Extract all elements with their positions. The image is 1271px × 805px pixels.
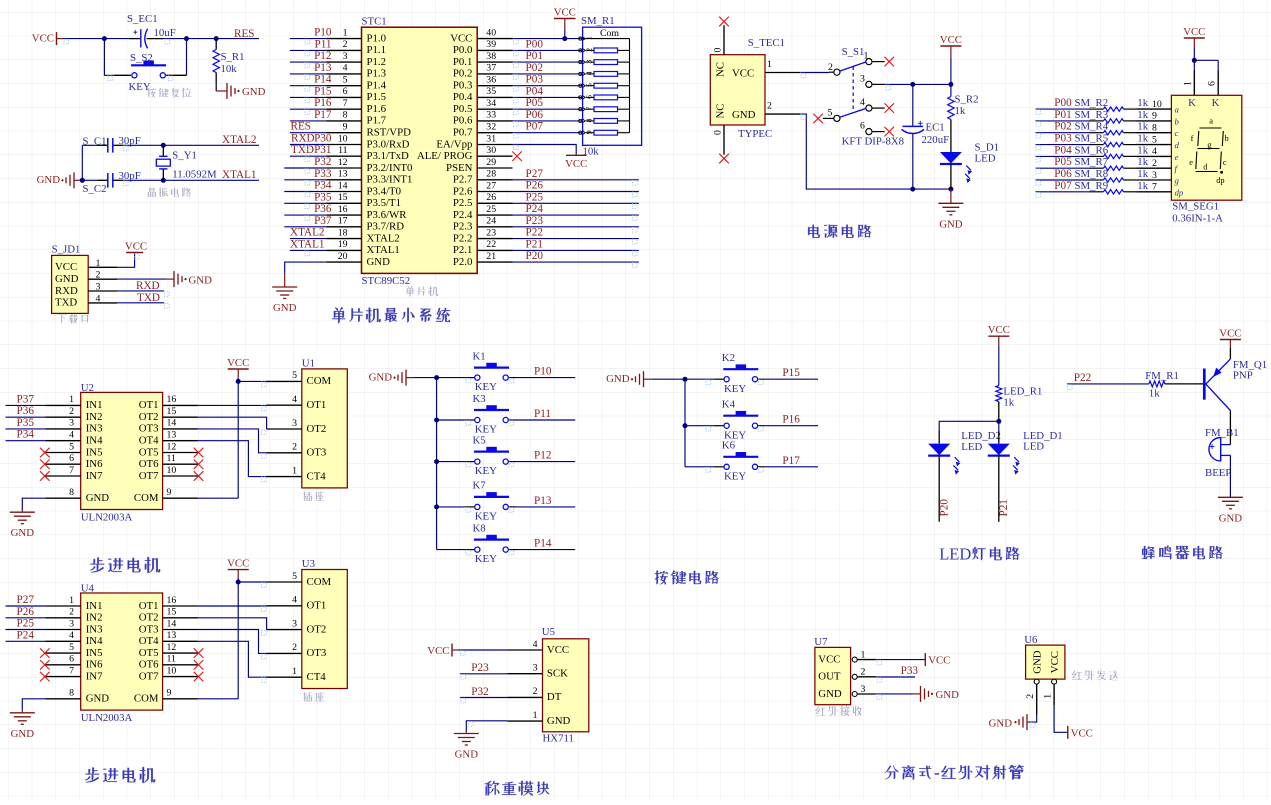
svg-text:35: 35 xyxy=(486,86,496,97)
buzzer FM_B1 BEEP xyxy=(1205,427,1239,479)
wire K5 to bus xyxy=(437,461,465,463)
node junction bus K3 xyxy=(434,418,439,423)
svg-text:SM_R4: SM_R4 xyxy=(1075,121,1109,133)
no connect X U4 IN5 xyxy=(40,648,50,658)
no connect X U4 IN7 xyxy=(40,672,50,682)
wire P24 xyxy=(6,640,46,642)
led LED_D1 xyxy=(988,430,1063,522)
wire keys left bus xyxy=(415,378,437,550)
svg-text:VCC: VCC xyxy=(227,558,249,570)
svg-text:COM: COM xyxy=(307,375,332,387)
svg-text:e: e xyxy=(1189,158,1193,167)
wire P01 xyxy=(513,61,583,63)
wire P26 xyxy=(6,617,46,619)
net label P23 xyxy=(471,662,489,674)
power port VCC (hx711) xyxy=(427,644,458,657)
svg-text:1k: 1k xyxy=(955,105,966,117)
svg-text:3: 3 xyxy=(533,663,538,674)
svg-text:39: 39 xyxy=(486,39,496,50)
svg-text:OT1: OT1 xyxy=(307,600,327,612)
svg-text:S_C2: S_C2 xyxy=(83,183,107,195)
wire P16 xyxy=(290,108,326,110)
svg-text:K6: K6 xyxy=(722,440,736,452)
svg-text:3: 3 xyxy=(292,418,297,429)
net label P04 xyxy=(526,85,544,97)
title 按键电路 xyxy=(655,571,719,585)
net label P07 (7seg) xyxy=(1054,180,1072,192)
svg-text:7: 7 xyxy=(343,98,348,109)
svg-text:OT4: OT4 xyxy=(139,435,159,447)
svg-text:9: 9 xyxy=(343,122,348,133)
wire EA to VCC xyxy=(513,145,577,156)
svg-text:8: 8 xyxy=(343,110,348,121)
svg-text:P27: P27 xyxy=(526,168,544,180)
svg-text:P3.6/WR: P3.6/WR xyxy=(367,209,408,221)
svg-text:LED: LED xyxy=(939,545,971,564)
net label P22 xyxy=(1074,372,1091,384)
svg-text:0.36IN-1-A: 0.36IN-1-A xyxy=(1172,213,1223,225)
svg-text:IN4: IN4 xyxy=(86,435,103,447)
wire TYPEC GND to bottom rail xyxy=(800,114,951,189)
svg-text:2: 2 xyxy=(69,406,74,417)
wire K3 to P11 xyxy=(516,419,576,421)
svg-text:22: 22 xyxy=(486,239,496,250)
svg-text:OT1: OT1 xyxy=(139,399,159,411)
led S_D1 xyxy=(940,142,999,189)
svg-text:3: 3 xyxy=(860,74,865,85)
connector S_TEC1 TYPEC xyxy=(710,25,800,154)
net label P12 xyxy=(534,450,551,462)
svg-text:P30: P30 xyxy=(314,133,332,145)
svg-text:TXD: TXD xyxy=(55,297,77,309)
wire P02 to segment resistor xyxy=(1035,132,1089,134)
wire K7 to P13 xyxy=(516,506,576,508)
svg-text:OT6: OT6 xyxy=(139,659,159,671)
net label P10 xyxy=(314,27,332,39)
svg-text:16: 16 xyxy=(167,595,177,606)
net label P25 xyxy=(526,191,544,203)
wire P01 to segment resistor xyxy=(1035,120,1089,122)
wire mcu VCC pin40 xyxy=(513,38,583,40)
no connect X TYPEC bottom xyxy=(719,154,729,164)
no connect X switch pin1 xyxy=(884,57,894,67)
title 步进电机 (upper) xyxy=(90,557,160,573)
svg-text:7: 7 xyxy=(69,665,74,676)
svg-text:COM: COM xyxy=(307,576,332,588)
mcu pin names and numbers xyxy=(338,27,496,268)
svg-text:OT2: OT2 xyxy=(307,623,327,635)
power port VCC (U7) xyxy=(925,653,950,667)
svg-text:K2: K2 xyxy=(722,352,735,364)
wire P06 to segment resistor xyxy=(1035,179,1089,181)
net label P13 xyxy=(534,495,552,507)
7seg pin 3 xyxy=(1136,170,1179,186)
svg-text:RES: RES xyxy=(234,28,255,40)
wire mcu GND xyxy=(285,262,327,273)
net label P02 xyxy=(526,62,543,74)
wire VCC to U1 COM xyxy=(238,380,266,382)
svg-text:40: 40 xyxy=(486,27,496,38)
wire P34 xyxy=(6,440,46,442)
svg-text:1k: 1k xyxy=(1137,156,1148,168)
compile marks xyxy=(64,39,1072,727)
svg-text:OT7: OT7 xyxy=(139,670,159,682)
wire hx711 VCC xyxy=(458,649,507,651)
title 单片机最小系统 xyxy=(332,307,450,323)
wire TXD P31 xyxy=(290,155,326,157)
svg-text:1: 1 xyxy=(343,27,348,38)
wire P07 xyxy=(513,132,583,134)
svg-text:P2.0: P2.0 xyxy=(453,256,473,268)
no connect X U4 OT6 xyxy=(194,660,204,670)
wire P37 xyxy=(284,226,326,228)
svg-text:2: 2 xyxy=(69,607,74,618)
wire P27 xyxy=(6,605,46,607)
svg-text:KEY: KEY xyxy=(475,553,497,565)
wire K1 to bus xyxy=(437,377,465,379)
svg-text:SM_R2: SM_R2 xyxy=(1075,97,1109,109)
svg-text:XTAL1: XTAL1 xyxy=(367,244,400,256)
no connect X U2 IN7 xyxy=(40,471,50,481)
svg-text:12: 12 xyxy=(167,441,177,452)
svg-text:P02: P02 xyxy=(1054,121,1071,133)
svg-text:KEY: KEY xyxy=(724,470,746,482)
net label RES (mcu) xyxy=(291,121,312,133)
svg-text:P32: P32 xyxy=(471,686,488,698)
svg-text:11: 11 xyxy=(338,145,348,156)
svg-text:34: 34 xyxy=(486,98,496,109)
svg-text:P33: P33 xyxy=(901,665,919,677)
svg-text:P3.3/INT1: P3.3/INT1 xyxy=(367,174,413,186)
svg-text:13: 13 xyxy=(167,630,177,641)
svg-text:2: 2 xyxy=(96,270,101,281)
wire P35 xyxy=(6,428,46,430)
wire collector to buzzer xyxy=(1229,411,1231,445)
net label P03 (7seg) xyxy=(1054,133,1072,145)
ground GND (hx711) xyxy=(454,731,479,761)
net label P14 xyxy=(314,74,332,86)
svg-text:1: 1 xyxy=(69,394,74,405)
wire P36 xyxy=(284,214,326,216)
node junction LED bottom xyxy=(948,187,953,192)
svg-text:3: 3 xyxy=(96,282,101,293)
svg-text:SM_R3: SM_R3 xyxy=(1075,109,1109,121)
net label RXD xyxy=(136,280,160,292)
svg-text:P15: P15 xyxy=(314,85,332,97)
svg-text:VCC: VCC xyxy=(988,324,1010,336)
wire P21 xyxy=(513,249,639,251)
net label P21 xyxy=(998,499,1010,516)
svg-text:4: 4 xyxy=(860,97,865,108)
svg-text:P0.4: P0.4 xyxy=(453,91,473,103)
svg-text:d: d xyxy=(1175,140,1180,150)
svg-text:P0.0: P0.0 xyxy=(453,44,473,56)
svg-text:5: 5 xyxy=(69,441,74,452)
svg-text:VCC: VCC xyxy=(1183,26,1205,38)
wire P26 xyxy=(513,191,639,193)
svg-text:S_Y1: S_Y1 xyxy=(172,149,197,161)
svg-text:13: 13 xyxy=(338,169,348,180)
power port VCC (EA) xyxy=(565,155,587,170)
svg-text:P04: P04 xyxy=(1054,144,1072,156)
svg-text:0: 0 xyxy=(712,130,723,135)
wire OT2 to U1 xyxy=(198,417,267,429)
svg-text:OUT: OUT xyxy=(818,671,841,683)
svg-text:2: 2 xyxy=(292,442,297,453)
svg-text:33: 33 xyxy=(486,110,496,121)
wire U4 GND xyxy=(22,699,45,710)
svg-text:0: 0 xyxy=(712,48,723,53)
svg-text:U7: U7 xyxy=(814,636,828,648)
mcu pins right xyxy=(477,39,512,263)
svg-text:P10: P10 xyxy=(534,366,552,378)
wire to LED_D1 xyxy=(998,421,1000,431)
svg-text:KEY: KEY xyxy=(475,381,497,393)
svg-text:P2.2: P2.2 xyxy=(453,232,473,244)
svg-text:IN7: IN7 xyxy=(86,470,103,482)
svg-text:GND: GND xyxy=(11,728,35,740)
svg-text:P3.0/RxD: P3.0/RxD xyxy=(367,138,410,150)
svg-text:NC: NC xyxy=(715,104,727,119)
ground GND (power circuit) xyxy=(938,189,963,230)
7seg pin 8 xyxy=(1136,123,1178,139)
wire OT1 to U3 xyxy=(198,605,267,607)
svg-text:P0.6: P0.6 xyxy=(453,115,473,127)
wire S_EC1 to RES xyxy=(164,38,260,40)
svg-text:P10: P10 xyxy=(314,27,332,39)
svg-text:P07: P07 xyxy=(526,121,544,133)
svg-text:GND: GND xyxy=(86,693,110,705)
net label P36 xyxy=(314,203,332,215)
svg-text:10uF: 10uF xyxy=(154,27,176,39)
svg-text:6: 6 xyxy=(69,453,74,464)
svg-text:STC89C52: STC89C52 xyxy=(362,275,411,287)
resistor network SM_R1 10k xyxy=(579,15,642,158)
svg-text:a: a xyxy=(1209,117,1213,126)
svg-text:RST/VPD: RST/VPD xyxy=(367,127,412,139)
svg-text:P01: P01 xyxy=(526,50,543,62)
wire P15 xyxy=(290,96,326,98)
net label P07 xyxy=(526,121,544,133)
svg-text:P3.7/RD: P3.7/RD xyxy=(367,221,405,233)
wire JD1 pin3 RXD xyxy=(117,290,164,292)
wire K4 to P16 xyxy=(765,425,818,427)
net label P20 xyxy=(939,499,951,517)
svg-text:5: 5 xyxy=(69,642,74,653)
svg-text:P22: P22 xyxy=(1074,372,1091,384)
net label RXD P30 xyxy=(291,133,332,145)
wire K8 to bus xyxy=(437,549,465,551)
resistor SM_R2 1k xyxy=(1075,97,1149,111)
svg-text:P03: P03 xyxy=(526,74,544,86)
svg-text:11.0592M: 11.0592M xyxy=(172,168,217,180)
svg-text:SM_R7: SM_R7 xyxy=(1075,156,1109,168)
wire P35 xyxy=(284,202,326,204)
svg-text:K: K xyxy=(1212,97,1220,109)
svg-text:2: 2 xyxy=(767,101,772,112)
ic U5 HX711 xyxy=(507,626,589,744)
power port VCC (reset) xyxy=(32,32,63,45)
7seg pin 9 xyxy=(1136,111,1179,127)
svg-text:P0.3: P0.3 xyxy=(453,80,473,92)
net label P21 xyxy=(526,238,543,250)
wire P05 to segment resistor xyxy=(1035,167,1089,169)
svg-text:P12: P12 xyxy=(314,50,331,62)
svg-text:P14: P14 xyxy=(314,74,332,86)
svg-text:P1.1: P1.1 xyxy=(367,44,387,56)
wire RES xyxy=(290,132,326,134)
svg-text:P20: P20 xyxy=(939,499,951,517)
svg-text:P1.3: P1.3 xyxy=(367,68,387,80)
wire switch pin3 to VCC rail xyxy=(885,83,951,85)
resistor SM_R6 1k xyxy=(1075,144,1149,158)
svg-text:38: 38 xyxy=(486,51,496,62)
svg-text:S_C1: S_C1 xyxy=(83,136,107,148)
connector U1 xyxy=(267,357,348,488)
svg-text:IN1: IN1 xyxy=(86,399,103,411)
svg-text:XTAL2: XTAL2 xyxy=(222,134,257,146)
resistor SM_R8 1k xyxy=(1075,168,1149,182)
svg-text:1: 1 xyxy=(292,465,297,476)
net label P20 xyxy=(526,250,544,262)
wire TYPEC VCC to switch xyxy=(800,72,829,74)
svg-text:OT3: OT3 xyxy=(307,647,327,659)
7seg pin 10 xyxy=(1136,99,1179,115)
svg-text:CT4: CT4 xyxy=(307,470,327,482)
wire VCC to U3 COM xyxy=(238,581,266,583)
svg-text:P34: P34 xyxy=(314,180,332,192)
svg-text:P1.4: P1.4 xyxy=(367,80,387,92)
svg-text:5: 5 xyxy=(292,370,297,381)
svg-text:OT2: OT2 xyxy=(139,612,159,624)
node junction XTAL2 xyxy=(161,143,166,148)
net label P10 xyxy=(534,366,552,378)
wire K7 to bus xyxy=(437,506,465,508)
svg-text:VCC: VCC xyxy=(565,158,587,170)
wire to LED_D2 xyxy=(939,421,999,431)
no connect X U4 OT7 xyxy=(194,672,204,682)
mcu pins left xyxy=(326,39,361,263)
power port GND (U6) xyxy=(989,714,1029,730)
wire P27 xyxy=(513,179,639,181)
comment text 按键复位 xyxy=(147,88,191,98)
net label P02 (7seg) xyxy=(1054,121,1071,133)
svg-text:GND: GND xyxy=(455,749,479,761)
comment text 红外接收 xyxy=(815,706,862,717)
svg-text:K3: K3 xyxy=(473,393,486,405)
svg-text:P11: P11 xyxy=(315,38,332,50)
svg-text:KEY: KEY xyxy=(475,465,497,477)
node junction VCC U3 xyxy=(236,580,241,585)
ground GND (U4) xyxy=(10,710,35,740)
svg-text:GND: GND xyxy=(936,689,960,701)
svg-text:P1.2: P1.2 xyxy=(367,56,387,68)
svg-text:PNP: PNP xyxy=(1233,370,1253,382)
7seg pin 4 xyxy=(1136,146,1178,162)
wire COM rail U4 xyxy=(198,582,238,699)
no connect X switch pin6 xyxy=(884,127,894,137)
svg-text:ALE/ PROG: ALE/ PROG xyxy=(417,150,473,162)
svg-text:P1.5: P1.5 xyxy=(367,91,387,103)
net label P11 xyxy=(315,38,332,50)
svg-text:OT2: OT2 xyxy=(139,411,159,423)
svg-text:U1: U1 xyxy=(302,357,315,369)
power port GND (U7) xyxy=(913,686,960,702)
svg-text:GND: GND xyxy=(55,273,79,285)
wire C2 to XTAL1 xyxy=(123,179,259,181)
svg-text:OT1: OT1 xyxy=(307,399,327,411)
resistor S_R2 1k xyxy=(948,84,979,152)
svg-text:GND: GND xyxy=(86,492,110,504)
net label P15 xyxy=(782,367,800,379)
wire P11 xyxy=(290,49,326,51)
transistor FM_Q1 PNP xyxy=(1204,359,1267,411)
svg-text:24: 24 xyxy=(486,216,496,227)
7seg digit drawing xyxy=(1189,117,1228,186)
svg-text:P0.7: P0.7 xyxy=(453,127,473,139)
net label P11 xyxy=(534,408,551,420)
wire U2 GND xyxy=(22,498,45,509)
wire P07 to segment resistor xyxy=(1035,191,1089,193)
wire U6 pin1 VCC xyxy=(1054,705,1068,732)
node junction S_S2 right xyxy=(184,36,189,41)
svg-text:RXD: RXD xyxy=(291,133,315,145)
node junction bus K1 xyxy=(434,375,439,380)
net label RES xyxy=(234,28,255,40)
ground GND (mcu) xyxy=(272,274,297,315)
7seg pin 2 xyxy=(1136,158,1178,174)
svg-text:P12: P12 xyxy=(534,450,551,462)
svg-text:1: 1 xyxy=(864,51,869,62)
wire U7 pin3 GND xyxy=(876,693,913,695)
wire P32 xyxy=(284,167,326,169)
svg-text:VCC: VCC xyxy=(227,357,249,369)
svg-text:1k: 1k xyxy=(1137,97,1148,109)
svg-text:DT: DT xyxy=(547,691,562,703)
svg-text:P2.4: P2.4 xyxy=(453,209,473,221)
svg-text:15: 15 xyxy=(167,607,177,618)
net label P25 xyxy=(17,618,35,630)
wire P10 xyxy=(290,38,326,40)
resistor SM_R9 1k xyxy=(1075,180,1149,194)
ground GND (U2) xyxy=(10,510,35,540)
svg-text:3: 3 xyxy=(69,418,74,429)
no connect X switch pin4 xyxy=(884,103,894,113)
svg-text:COM: COM xyxy=(134,492,159,504)
svg-text:1: 1 xyxy=(1042,694,1053,699)
svg-text:b: b xyxy=(1175,116,1180,126)
svg-text:18: 18 xyxy=(338,227,348,238)
svg-text:P17: P17 xyxy=(782,455,800,467)
svg-text:P36: P36 xyxy=(17,405,35,417)
svg-text:GND: GND xyxy=(242,86,266,98)
key button K7 xyxy=(464,480,515,523)
svg-text:KEY: KEY xyxy=(475,511,497,523)
svg-text:9: 9 xyxy=(167,487,172,498)
net label P24 xyxy=(526,203,544,215)
wire K8 to P14 xyxy=(516,549,576,551)
svg-text:5: 5 xyxy=(343,75,348,86)
svg-text:1: 1 xyxy=(767,59,772,70)
net label P37 xyxy=(17,393,35,405)
svg-text:10: 10 xyxy=(167,665,177,676)
svg-text:GND: GND xyxy=(1032,650,1044,674)
svg-text:VCC: VCC xyxy=(940,34,962,46)
net label P04 (7seg) xyxy=(1054,144,1072,156)
svg-text:VCC: VCC xyxy=(732,68,754,80)
svg-text:11: 11 xyxy=(167,453,177,464)
title 称重模块 xyxy=(485,781,549,796)
